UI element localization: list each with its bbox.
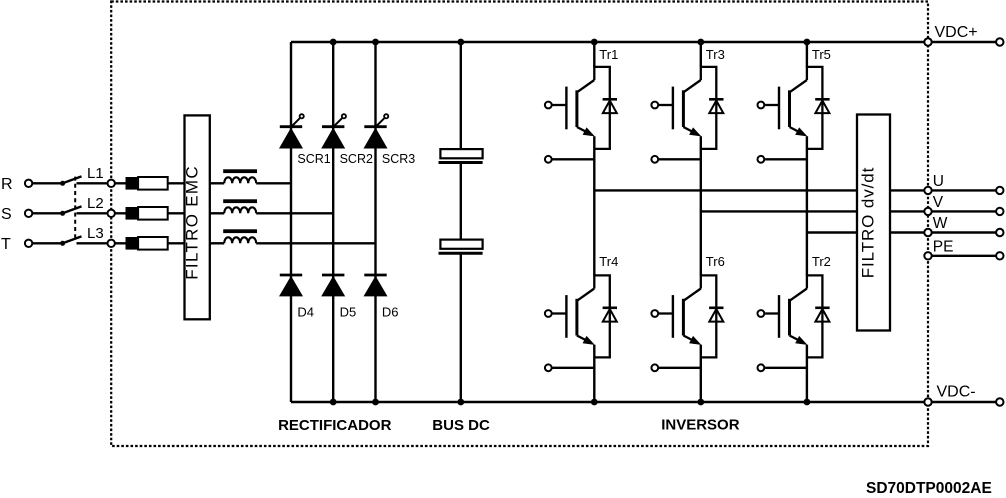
svg-text:INVERSOR: INVERSOR — [661, 417, 740, 434]
dv/dt filter block — [857, 115, 890, 331]
PE wire — [928, 255, 996, 257]
DC bus wire upper — [460, 42, 462, 149]
svg-text:VDC+: VDC+ — [935, 24, 978, 41]
wire EMC filter to inductor row R — [210, 182, 224, 184]
junction top bus 6 — [804, 39, 811, 46]
node L2 — [108, 210, 115, 217]
fuse L2 — [126, 207, 139, 220]
DC bus wire middle — [460, 163, 462, 240]
transistor Tr4 — [545, 275, 617, 371]
node U — [924, 187, 931, 194]
thyristor SCR1 — [280, 125, 302, 128]
junction top bus 1 — [330, 39, 337, 46]
junction bottom bus 2 — [372, 399, 379, 406]
wire EMC filter to inductor row S — [210, 212, 224, 214]
VDC- bus wire — [291, 401, 996, 404]
wire EMC filter to inductor row T — [210, 242, 224, 244]
terminal VDC- — [996, 398, 1003, 405]
svg-text:L3: L3 — [87, 225, 104, 242]
junction bottom bus 1 — [330, 399, 337, 406]
svg-text:VDC-: VDC- — [937, 384, 976, 401]
thyristor SCR3 — [364, 125, 386, 128]
svg-text:SCR2: SCR2 — [340, 152, 373, 166]
svg-text:L1: L1 — [87, 165, 104, 182]
input terminal R — [25, 180, 32, 187]
inverter column 2 emitter wire — [700, 345, 702, 402]
wire inductor to rectifier column 1 — [256, 182, 291, 184]
phase W wire — [807, 231, 996, 233]
input terminal S — [25, 210, 32, 217]
fuse L3 — [126, 237, 139, 250]
inverter column 2 collector wire — [700, 42, 702, 67]
diode D4 — [280, 274, 302, 277]
inverter column 1 emitter wire — [593, 345, 595, 402]
svg-text:D4: D4 — [297, 305, 314, 320]
node VDC+ — [924, 38, 931, 45]
svg-text:SD70DTP0002AE: SD70DTP0002AE — [866, 480, 992, 497]
inductor row R — [223, 169, 257, 173]
inverter column 3 midpoint wire — [806, 136, 808, 275]
transistor Tr6 — [651, 275, 723, 371]
svg-text:SCR3: SCR3 — [382, 152, 415, 166]
wire switch to node L2 — [77, 212, 126, 214]
VDC+ bus wire — [291, 41, 996, 44]
svg-text:V: V — [933, 194, 944, 211]
junction top bus 4 — [591, 39, 598, 46]
junction bottom bus 5 — [697, 399, 704, 406]
svg-text:BUS DC: BUS DC — [432, 417, 490, 434]
wire fuse to EMC filter row T — [168, 242, 185, 244]
inverter column 1 midpoint wire — [593, 136, 595, 275]
terminal W — [996, 229, 1003, 236]
terminal V — [996, 208, 1003, 215]
phase U wire — [594, 189, 995, 191]
svg-text:Tr6: Tr6 — [706, 254, 725, 269]
svg-text:U: U — [933, 173, 944, 190]
wire fuse to EMC filter row S — [168, 212, 185, 214]
inductor row S — [223, 199, 257, 203]
svg-text:RECTIFICADOR: RECTIFICADOR — [278, 417, 391, 434]
junction top bus 3 — [457, 39, 464, 46]
wire fuse to EMC filter row R — [168, 182, 185, 184]
terminal PE — [996, 252, 1003, 259]
rectifier column 2 wire — [332, 42, 334, 402]
svg-text:R: R — [1, 176, 13, 193]
wire switch to node L3 — [77, 242, 126, 244]
rectifier column 1 wire — [290, 42, 292, 402]
diode D5 — [322, 274, 344, 277]
inverter column 2 midpoint wire — [700, 136, 702, 275]
svg-text:FILTRO dv/dt: FILTRO dv/dt — [859, 167, 878, 279]
junction bottom bus 6 — [804, 399, 811, 406]
svg-text:SCR1: SCR1 — [297, 152, 330, 166]
DC bus wire lower — [460, 253, 462, 402]
diode D6 — [364, 274, 386, 277]
transistor Tr1 — [545, 67, 617, 163]
phase V wire — [701, 210, 996, 212]
junction top bus 2 — [372, 39, 379, 46]
node L3 — [108, 240, 115, 247]
svg-text:PE: PE — [933, 239, 954, 256]
terminal VDC+ — [996, 38, 1003, 45]
disconnect switch pole S — [60, 211, 65, 216]
disconnect switch pole R — [60, 181, 65, 186]
dashed enclosure border — [111, 2, 928, 447]
junction top bus 5 — [697, 39, 704, 46]
inverter column 3 collector wire — [806, 42, 808, 67]
svg-text:L2: L2 — [87, 195, 104, 212]
inverter column 3 emitter wire — [806, 345, 808, 402]
node VDC- — [924, 398, 931, 405]
node L1 — [108, 180, 115, 187]
wire inductor to rectifier column 2 — [256, 212, 333, 214]
EMC filter block — [185, 115, 210, 319]
terminal U — [996, 187, 1003, 194]
transistor Tr2 — [758, 275, 830, 371]
svg-text:W: W — [933, 215, 948, 232]
disconnect switch pole T — [60, 241, 65, 246]
svg-text:Tr3: Tr3 — [706, 47, 725, 62]
svg-text:D5: D5 — [340, 305, 357, 320]
input terminal T — [25, 240, 32, 247]
svg-text:D6: D6 — [382, 305, 399, 320]
rectifier column 3 wire — [374, 42, 376, 402]
node V — [924, 208, 931, 215]
inductor row T — [223, 229, 257, 233]
svg-text:Tr5: Tr5 — [812, 47, 831, 62]
svg-text:Tr4: Tr4 — [599, 254, 618, 269]
svg-text:T: T — [1, 236, 11, 253]
wire switch to node L1 — [77, 182, 126, 184]
svg-text:Tr1: Tr1 — [599, 47, 618, 62]
svg-text:S: S — [1, 206, 12, 223]
capacitor C1 — [440, 149, 482, 158]
fuse L1 — [126, 177, 139, 190]
transistor Tr5 — [758, 67, 830, 163]
svg-text:Tr2: Tr2 — [812, 254, 831, 269]
capacitor C2 — [440, 240, 482, 249]
wire inductor to rectifier column 3 — [256, 242, 375, 244]
node PE — [924, 252, 931, 259]
thyristor SCR2 — [322, 125, 344, 128]
svg-text:FILTRO EMC: FILTRO EMC — [182, 165, 201, 280]
inverter column 1 collector wire — [593, 42, 595, 67]
junction bottom bus 3 — [457, 399, 464, 406]
mechanical link dashed line — [74, 177, 76, 241]
node W — [924, 229, 931, 236]
transistor Tr3 — [651, 67, 723, 163]
junction bottom bus 4 — [591, 399, 598, 406]
